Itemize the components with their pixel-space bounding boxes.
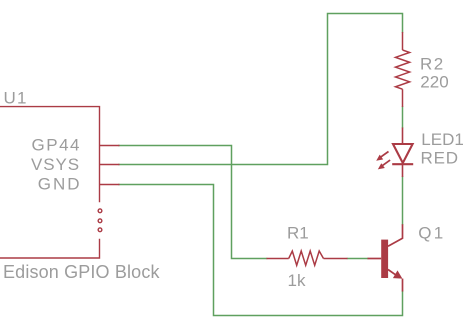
svg-text:R1: R1 — [287, 223, 309, 242]
svg-text:GP44: GP44 — [32, 136, 81, 155]
svg-text:U1: U1 — [4, 88, 28, 107]
svg-text:220: 220 — [420, 73, 448, 92]
svg-text:RED: RED — [421, 149, 459, 168]
svg-text:GND: GND — [38, 174, 82, 193]
svg-text:R2: R2 — [420, 55, 445, 74]
svg-text:LED1: LED1 — [421, 130, 464, 149]
svg-text:Q1: Q1 — [418, 223, 445, 242]
svg-text:VSYS: VSYS — [31, 155, 80, 174]
svg-text:1k: 1k — [288, 271, 306, 290]
svg-text:Edison GPIO Block: Edison GPIO Block — [3, 262, 160, 282]
